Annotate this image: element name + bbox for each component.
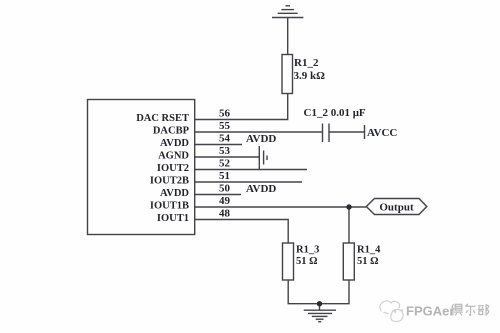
svg-text:3.9 kΩ: 3.9 kΩ bbox=[294, 70, 326, 82]
svg-text:R1_3: R1_3 bbox=[296, 245, 319, 256]
wire R1_3 bottom bbox=[288, 280, 349, 304]
svg-text:R1_4: R1_4 bbox=[357, 245, 381, 256]
watermark glyph ju bbox=[452, 304, 463, 315]
wire pin 52 bbox=[195, 169, 307, 171]
svg-text:53: 53 bbox=[219, 145, 231, 157]
wire pin 49 bbox=[195, 206, 367, 208]
svg-text:50: 50 bbox=[219, 183, 231, 195]
svg-text:49: 49 bbox=[219, 195, 231, 207]
svg-text:DAC RSET: DAC RSET bbox=[136, 113, 189, 124]
node AVCC bbox=[364, 125, 366, 139]
wire R1_2 to pin 56 bbox=[195, 94, 288, 120]
ground bottom bbox=[304, 310, 336, 322]
wire pin 50 bbox=[195, 194, 241, 196]
svg-text:FPGAer: FPGAer bbox=[406, 304, 454, 319]
svg-text:AVDD: AVDD bbox=[160, 138, 189, 149]
port Output bbox=[366, 199, 427, 215]
IC U1 bbox=[88, 100, 195, 235]
svg-text:C1_2 0.01 μF: C1_2 0.01 μF bbox=[304, 107, 366, 119]
wire pin 48 bbox=[195, 220, 289, 244]
svg-text:IOUT1B: IOUT1B bbox=[150, 201, 189, 212]
svg-text:AVCC: AVCC bbox=[367, 127, 397, 139]
svg-text:56: 56 bbox=[219, 108, 231, 120]
wire pin 55 bbox=[195, 131, 322, 133]
svg-text:AVDD: AVDD bbox=[160, 188, 189, 199]
svg-text:51 Ω: 51 Ω bbox=[357, 256, 379, 267]
svg-text:DACBP: DACBP bbox=[153, 126, 190, 137]
svg-text:51: 51 bbox=[219, 170, 230, 182]
capacitor at pin 53 bbox=[259, 146, 267, 169]
svg-text:AVDD: AVDD bbox=[246, 183, 276, 195]
svg-text:48: 48 bbox=[219, 208, 231, 220]
resistor R1_3 bbox=[283, 243, 294, 280]
wire ground to R1_2 bbox=[287, 18, 289, 55]
watermark glyph bu bbox=[478, 304, 489, 315]
resistor R1_2 bbox=[282, 55, 293, 94]
wire pin 54 bbox=[195, 144, 242, 146]
svg-text:AVDD: AVDD bbox=[246, 133, 276, 145]
wire junction to R1_4 bbox=[348, 207, 350, 243]
svg-text:IOUT2B: IOUT2B bbox=[150, 176, 189, 187]
junction dot at ground bbox=[317, 301, 322, 306]
svg-text:51 Ω: 51 Ω bbox=[296, 256, 318, 267]
svg-text:AGND: AGND bbox=[158, 151, 189, 162]
svg-text:IOUT1: IOUT1 bbox=[157, 213, 189, 224]
wire pin 51 bbox=[195, 181, 302, 183]
svg-text:52: 52 bbox=[219, 158, 231, 170]
svg-text:54: 54 bbox=[219, 133, 231, 145]
capacitor C1_2 bbox=[323, 124, 365, 143]
wire pin 53 bbox=[195, 156, 260, 158]
svg-text:R1_2: R1_2 bbox=[294, 57, 319, 69]
resistor R1_4 bbox=[343, 243, 354, 280]
wire ground stub bbox=[319, 304, 321, 310]
watermark logo bbox=[380, 301, 403, 322]
svg-text:55: 55 bbox=[219, 120, 231, 132]
watermark glyph le bbox=[465, 304, 475, 315]
svg-text:Output: Output bbox=[379, 201, 414, 213]
junction dot at output bbox=[346, 204, 351, 209]
ground top bbox=[272, 6, 303, 18]
svg-text:IOUT2: IOUT2 bbox=[157, 163, 189, 174]
